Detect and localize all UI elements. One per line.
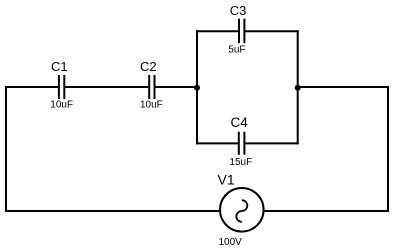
wire: parallel box right vertical [297, 30, 299, 144]
svg-text:C1: C1 [51, 59, 68, 74]
svg-text:10uF: 10uF [50, 100, 73, 111]
svg-text:C2: C2 [140, 59, 157, 74]
svg-text:100V: 100V [219, 237, 243, 248]
svg-text:10uF: 10uF [140, 100, 163, 111]
capacitor C2 [149, 75, 154, 99]
wire: right junction to right side [298, 86, 389, 88]
junction dot: node at right of parallel box [295, 85, 301, 91]
svg-text:C4: C4 [231, 115, 249, 130]
svg-text:V1: V1 [218, 171, 235, 187]
junction dot: node at left of parallel box [194, 85, 200, 91]
wire: main horizontal, left end to C1 [6, 86, 59, 88]
svg-text:C3: C3 [230, 3, 247, 18]
capacitor C3 [239, 19, 244, 44]
capacitor C1 [59, 75, 64, 99]
wire: parallel box left vertical [196, 30, 198, 144]
capacitor C4 [239, 132, 245, 155]
AC voltage source V1 [220, 188, 264, 232]
wire: box top, left of C3 [196, 30, 238, 32]
svg-text:15uF: 15uF [229, 157, 252, 168]
svg-text:5uF: 5uF [228, 45, 245, 56]
wire: right vertical side [387, 86, 389, 212]
wire: between C1 and C2 [65, 86, 148, 88]
wire: box bottom, right of C4 [245, 142, 299, 144]
wire: bottom, left end to V1 [5, 210, 220, 212]
wire: box top, right of C3 [245, 30, 299, 32]
wire: V1 to bottom right [264, 210, 389, 212]
wire: C2 to left junction [155, 86, 198, 88]
wire: left vertical side [5, 86, 7, 212]
wire: box bottom, left of C4 [196, 142, 238, 144]
